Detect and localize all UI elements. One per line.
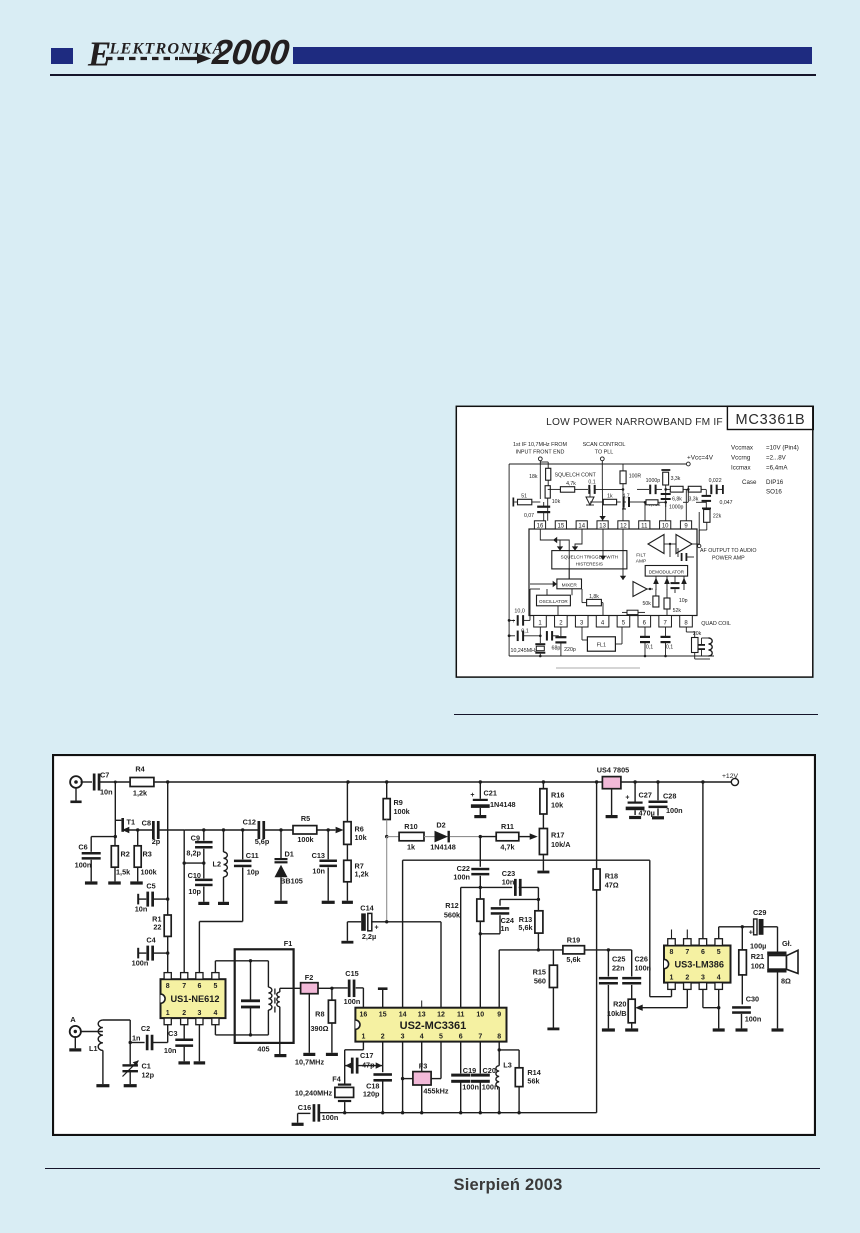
resistor R18 xyxy=(593,782,619,1113)
node C18 gnd rail xyxy=(381,1111,384,1114)
wire F3 bottom xyxy=(421,1085,423,1113)
capacitor C8 xyxy=(142,818,161,846)
svg-text:LEKTRONIKA: LEKTRONIKA xyxy=(109,40,225,58)
svg-text:C8: C8 xyxy=(142,818,151,827)
svg-text:4: 4 xyxy=(717,974,721,981)
svg-text:US1-NE612: US1-NE612 xyxy=(170,994,219,1004)
inset block mixer xyxy=(557,579,582,589)
svg-text:C1: C1 xyxy=(142,1061,151,1070)
svg-text:MIXER: MIXER xyxy=(562,583,578,589)
capacitor 10p xyxy=(671,576,688,604)
svg-text:1st IF 10,7MHz FROM: 1st IF 10,7MHz FROM xyxy=(513,442,567,448)
resistor 4,70k xyxy=(645,500,662,508)
wire mixer connections xyxy=(530,537,569,587)
svg-text:BB105: BB105 xyxy=(280,877,303,886)
svg-text:C6: C6 xyxy=(78,843,87,852)
node C1 C2 xyxy=(129,1041,132,1044)
svg-text:C9: C9 xyxy=(191,834,200,843)
svg-text:=2...8V: =2...8V xyxy=(766,455,787,462)
svg-text:5: 5 xyxy=(213,983,217,990)
resistor 6,8k xyxy=(666,486,689,502)
capacitor C28 xyxy=(649,782,683,816)
svg-text:C30: C30 xyxy=(746,994,759,1003)
connector A antenna xyxy=(70,1015,81,1048)
filter F1 box xyxy=(235,939,294,1043)
svg-text:R19: R19 xyxy=(567,935,580,944)
svg-text:C17: C17 xyxy=(360,1051,373,1060)
wire T1 to C8 xyxy=(124,829,154,831)
node C9 C10 xyxy=(202,861,205,864)
ground C1 xyxy=(124,1084,137,1087)
svg-text:C11: C11 xyxy=(246,851,259,860)
svg-text:C14: C14 xyxy=(360,904,374,913)
svg-text:5,6k: 5,6k xyxy=(518,923,533,932)
svg-text:10k: 10k xyxy=(355,833,368,842)
svg-text:100n: 100n xyxy=(132,959,149,968)
svg-text:8: 8 xyxy=(497,1033,501,1040)
svg-text:R9: R9 xyxy=(394,798,403,807)
inset label +Vcc=4V xyxy=(687,455,714,462)
capacitor 1000p mid xyxy=(661,493,684,511)
MC3361B datasheet inset figure xyxy=(455,400,814,678)
svg-text:12: 12 xyxy=(620,524,627,530)
svg-text:TO PLL: TO PLL xyxy=(595,450,613,456)
svg-text:F2: F2 xyxy=(305,973,314,982)
svg-text:10p: 10p xyxy=(247,867,260,876)
wire pin10 drop xyxy=(664,488,667,521)
svg-text:100k: 100k xyxy=(297,835,314,844)
node rail R6 xyxy=(346,780,349,783)
svg-text:7: 7 xyxy=(478,1033,482,1040)
footer rule xyxy=(45,1168,820,1170)
svg-text:C29: C29 xyxy=(753,908,766,917)
inset block squelch trigger xyxy=(552,551,627,569)
schematic frame xyxy=(53,755,815,1135)
svg-text:1N4148: 1N4148 xyxy=(490,800,516,809)
resistor 10k xyxy=(545,486,560,521)
svg-text:C28: C28 xyxy=(663,792,676,801)
svg-text:LOW POWER NARROWBAND FM IF: LOW POWER NARROWBAND FM IF xyxy=(546,417,723,428)
wire pin1 up xyxy=(530,589,540,620)
svg-text:14: 14 xyxy=(578,524,585,530)
svg-text:R21: R21 xyxy=(751,952,764,961)
capacitor C29 electrolytic xyxy=(742,908,777,950)
ground US3 pin4 xyxy=(713,1028,725,1031)
wire C12 to R5 xyxy=(264,829,293,831)
svg-text:C4: C4 xyxy=(146,936,156,945)
wire y863 pin7 to C10 xyxy=(184,862,204,864)
capacitor C22 xyxy=(453,837,489,888)
svg-text:+12V: +12V xyxy=(722,773,739,780)
wire pin12 to C14 xyxy=(387,922,441,1008)
capacitor C11 xyxy=(234,830,260,922)
wire pin9 up xyxy=(499,950,538,1008)
wire C11 to pin6 xyxy=(199,922,242,973)
capacitor C17 xyxy=(345,1051,383,1073)
svg-text:R5: R5 xyxy=(301,814,310,823)
svg-text:R11: R11 xyxy=(501,822,514,831)
wire R9 junction down xyxy=(386,837,388,922)
wire y830 C8 to C12 xyxy=(184,829,259,831)
node rail R16 xyxy=(542,780,545,783)
svg-text:47p: 47p xyxy=(362,1060,375,1069)
resistor 18k xyxy=(529,462,551,486)
inset title LOW POWER NARROWBAND FM IF xyxy=(546,417,723,428)
potentiometer R6 xyxy=(336,782,368,860)
capacitor C15 xyxy=(332,969,360,1006)
ground R8 xyxy=(326,1053,338,1056)
wire F3 left xyxy=(403,1078,413,1080)
ground C28 xyxy=(652,816,664,819)
arrow pin13 into demod xyxy=(600,529,606,560)
svg-text:47Ω: 47Ω xyxy=(605,880,619,889)
svg-text:=10V (Pin4): =10V (Pin4) xyxy=(766,444,799,451)
node L2 rail xyxy=(222,828,225,831)
capacitor C3 xyxy=(164,1025,193,1062)
svg-text:11: 11 xyxy=(457,1011,465,1018)
inset wire top rail xyxy=(509,461,686,478)
ground F2 xyxy=(303,1053,315,1056)
wire F3 right pin5 xyxy=(431,1042,441,1079)
svg-text:C26: C26 xyxy=(635,955,648,964)
svg-text:1: 1 xyxy=(166,1010,170,1017)
svg-text:US3-LM386: US3-LM386 xyxy=(674,960,724,970)
svg-text:1n: 1n xyxy=(132,1034,141,1043)
op-amp triangle left xyxy=(648,535,664,554)
capacitor C23 xyxy=(502,869,522,896)
wire pin16 drop xyxy=(539,470,541,499)
capacitor 68p xyxy=(546,631,560,651)
node pin5 R21 C29 xyxy=(741,925,744,928)
node C13 top xyxy=(327,828,330,831)
wire pin3 US2 xyxy=(402,1042,404,1113)
wire pin5 to F1 xyxy=(215,961,268,973)
svg-text:16: 16 xyxy=(537,524,544,530)
svg-text:8Ω: 8Ω xyxy=(781,977,791,986)
capacitor C7 xyxy=(93,770,113,796)
ground C13 xyxy=(322,901,335,904)
wire bottom rail xyxy=(319,1112,597,1114)
crystal F4 xyxy=(332,1066,353,1113)
wire US3 pin6 Vcc xyxy=(702,782,704,939)
svg-text:18k: 18k xyxy=(529,474,538,480)
svg-text:R15: R15 xyxy=(533,967,546,976)
svg-text:FILT: FILT xyxy=(636,553,646,559)
capacitor 1000p top xyxy=(637,478,662,494)
wire pin12 demod xyxy=(620,529,626,580)
svg-text:56k: 56k xyxy=(527,1077,540,1086)
svg-text:QUAD COIL: QUAD COIL xyxy=(701,621,731,627)
svg-text:10n: 10n xyxy=(502,878,515,887)
resistor R3 xyxy=(134,830,157,881)
node rail US3pin6 xyxy=(701,780,704,783)
resistor R2 xyxy=(111,837,131,882)
svg-text:R14: R14 xyxy=(527,1068,541,1077)
diode D2 xyxy=(424,821,480,852)
resistor R4 xyxy=(130,764,154,797)
capacitor C27 electrolytic xyxy=(625,782,654,818)
resistor 3,3k mid xyxy=(688,486,706,502)
inset label 1st IF input xyxy=(513,442,567,456)
capacitor C13 xyxy=(312,830,337,901)
diode squelch xyxy=(586,489,594,505)
svg-text:6: 6 xyxy=(701,949,705,956)
svg-text:7: 7 xyxy=(182,983,186,990)
resistor 51 xyxy=(513,494,541,507)
node R13 top xyxy=(537,898,540,901)
svg-text:1,5k: 1,5k xyxy=(116,868,131,877)
inset wire bottom rail xyxy=(509,655,714,657)
svg-text:8: 8 xyxy=(670,949,674,956)
inset label filt amp xyxy=(636,553,646,565)
node F1 cap bottom xyxy=(249,1033,252,1036)
crystal 10,245MHz xyxy=(535,627,545,657)
capacitor C4 xyxy=(132,936,168,968)
svg-text:1000p: 1000p xyxy=(669,505,684,511)
node C19 gnd rail xyxy=(459,1111,462,1114)
wire pin1 US2 xyxy=(345,1042,364,1066)
svg-text:100n: 100n xyxy=(666,806,683,815)
capacitor C18 xyxy=(363,1073,392,1113)
svg-text:C27: C27 xyxy=(639,791,652,800)
filter F2 xyxy=(301,973,318,994)
svg-text:5: 5 xyxy=(717,949,721,956)
svg-text:6,8k: 6,8k xyxy=(672,497,682,503)
capacitor C9 xyxy=(186,828,212,863)
svg-text:OSCILLATOR: OSCILLATOR xyxy=(539,599,568,604)
header logo Elektronika 2000 xyxy=(51,48,73,64)
inset border frame xyxy=(456,406,813,677)
svg-text:L3: L3 xyxy=(503,1060,512,1069)
ground D1 xyxy=(275,901,288,904)
inductor L1 xyxy=(89,1020,103,1084)
svg-text:10: 10 xyxy=(476,1011,484,1018)
svg-text:3: 3 xyxy=(401,1033,405,1040)
wire C23 to R13 xyxy=(519,887,539,899)
svg-text:2p: 2p xyxy=(152,837,161,846)
wire US3 pin5 out xyxy=(719,927,743,939)
svg-text:100n: 100n xyxy=(75,861,92,870)
op-amp triangle right xyxy=(676,535,692,554)
wire speaker gnd xyxy=(777,973,779,1029)
ground C6 xyxy=(85,881,98,884)
wire pin11 drop xyxy=(644,501,647,521)
wire F3 top pin4 xyxy=(421,1042,423,1072)
svg-text:+: + xyxy=(749,928,754,937)
label quad coil xyxy=(701,621,731,627)
node R9 R10 xyxy=(385,835,388,838)
inset wire left rail xyxy=(508,464,510,656)
capacitor C2 xyxy=(130,1024,153,1050)
svg-text:1000p: 1000p xyxy=(646,478,661,484)
resistor 22k xyxy=(699,510,721,531)
ground C25 xyxy=(602,1028,615,1031)
transformer F1 core xyxy=(274,989,276,1013)
node C14 junction xyxy=(385,920,388,923)
svg-text:1n: 1n xyxy=(501,924,510,933)
inset terminal IF input xyxy=(538,457,542,461)
inset bottom arrows xyxy=(556,667,640,669)
node C11 top xyxy=(241,828,244,831)
stub R17 xyxy=(537,871,549,874)
svg-text:560k: 560k xyxy=(444,910,461,919)
inductor L3 xyxy=(496,1042,512,1113)
svg-text:F1: F1 xyxy=(284,939,293,948)
wire pin16 to C15 xyxy=(356,988,364,1008)
svg-text:100n: 100n xyxy=(745,1015,762,1024)
svg-text:0,047: 0,047 xyxy=(720,500,733,506)
trimmer C1 xyxy=(122,1043,154,1085)
svg-text:10,245MHz: 10,245MHz xyxy=(511,648,538,654)
resistor R1 xyxy=(152,915,171,937)
svg-text:0,07: 0,07 xyxy=(524,513,534,519)
op-amp US1-NE612 xyxy=(161,973,226,1025)
svg-text:C5: C5 xyxy=(146,882,155,891)
label 10,240MHz xyxy=(295,1088,333,1097)
node rail R9 xyxy=(385,780,388,783)
svg-text:R10: R10 xyxy=(404,822,417,831)
svg-text:R17: R17 xyxy=(551,830,564,839)
transistor T1 xyxy=(115,818,135,834)
svg-text:C16: C16 xyxy=(298,1103,311,1112)
svg-text:POWER AMP: POWER AMP xyxy=(712,556,745,562)
svg-text:L1: L1 xyxy=(89,1044,98,1053)
node F4 gnd rail xyxy=(343,1111,346,1114)
svg-text:R4: R4 xyxy=(135,764,145,773)
svg-text:+: + xyxy=(375,925,379,932)
filter FL1 xyxy=(582,627,622,651)
wire US3 pin3 xyxy=(703,989,719,1007)
svg-text:10,240MHz: 10,240MHz xyxy=(295,1088,333,1097)
node F3 gnd rail xyxy=(420,1111,423,1114)
svg-text:R12: R12 xyxy=(445,901,458,910)
quad coil tank xyxy=(695,638,713,659)
node C4 pin8 xyxy=(166,951,169,954)
capacitor C20 xyxy=(471,1042,499,1113)
svg-text:10Ω: 10Ω xyxy=(751,961,765,970)
svg-text:2: 2 xyxy=(381,1033,385,1040)
resistor 50k xyxy=(643,589,659,607)
inductor L2 xyxy=(212,830,227,902)
wire F2 out xyxy=(318,987,332,989)
svg-text:SCAN CONTROL: SCAN CONTROL xyxy=(583,442,626,448)
main schematic FM receiver xyxy=(52,754,816,1136)
ground R2 xyxy=(108,881,121,884)
svg-text:405: 405 xyxy=(257,1044,269,1053)
ground speaker xyxy=(772,1028,784,1031)
ground L2 xyxy=(218,902,229,905)
svg-text:10k: 10k xyxy=(552,499,561,505)
svg-text:DEMODULATOR: DEMODULATOR xyxy=(649,569,685,574)
svg-text:2,2µ: 2,2µ xyxy=(362,932,376,941)
resistor 100R xyxy=(620,464,641,489)
resistor 1,8k xyxy=(582,589,603,616)
svg-text:R3: R3 xyxy=(143,850,152,859)
svg-text:2: 2 xyxy=(182,1010,186,1017)
op-amp triangle small xyxy=(633,582,647,597)
wire mid row xyxy=(590,489,706,507)
svg-text:Vccmax: Vccmax xyxy=(731,444,754,451)
op-amp US3-LM386 xyxy=(664,939,731,990)
svg-text:13: 13 xyxy=(418,1011,426,1018)
svg-text:R20: R20 xyxy=(613,1000,626,1009)
svg-text:C12: C12 xyxy=(243,817,256,826)
svg-text:C19: C19 xyxy=(463,1066,476,1075)
wire Vcc rail xyxy=(81,781,732,783)
svg-text:1k: 1k xyxy=(407,842,416,851)
node rail R4 xyxy=(166,780,169,783)
svg-text:D2: D2 xyxy=(436,821,445,830)
capacitor 0,1 pin6 xyxy=(640,627,653,657)
svg-text:C21: C21 xyxy=(484,789,497,798)
svg-text:T1: T1 xyxy=(127,818,136,827)
svg-text:F4: F4 xyxy=(332,1074,341,1083)
svg-text:R8: R8 xyxy=(315,1010,324,1019)
svg-text:Gł.: Gł. xyxy=(782,939,792,948)
svg-text:C15: C15 xyxy=(345,969,358,978)
label 10,7MHz xyxy=(295,1057,325,1066)
svg-text:13: 13 xyxy=(599,524,606,530)
svg-text:68p: 68p xyxy=(552,646,561,652)
capacitor C14 electrolytic xyxy=(347,904,386,941)
svg-text:SQUELCH CONT: SQUELCH CONT xyxy=(555,472,597,478)
resistor R16 xyxy=(540,782,564,829)
wire pin12 drop xyxy=(622,488,625,521)
svg-text:1,2k: 1,2k xyxy=(133,789,148,798)
node T1 R3 xyxy=(136,828,139,831)
arrow into squelch from pin14 xyxy=(572,529,582,551)
node C6 R2 xyxy=(114,835,117,838)
inset block demodulator xyxy=(645,566,687,577)
node F1 cap top xyxy=(249,959,252,962)
wire R5 to R6 xyxy=(317,829,336,831)
svg-text:FL1: FL1 xyxy=(597,643,606,649)
svg-text:E: E xyxy=(87,34,111,73)
inset terminal scan control xyxy=(600,457,604,461)
svg-text:10n: 10n xyxy=(135,905,148,914)
capacitor 0,047 xyxy=(702,489,733,509)
inset terminal Vcc xyxy=(686,462,690,466)
wire L1 top xyxy=(103,1020,130,1043)
svg-text:L2: L2 xyxy=(212,860,221,869)
wire node to C23 xyxy=(480,886,512,888)
resistor R11 xyxy=(480,822,534,851)
node R12 bottom xyxy=(479,932,482,935)
svg-text:14: 14 xyxy=(399,1011,407,1018)
svg-text:1: 1 xyxy=(670,974,674,981)
node R14 gnd rail xyxy=(517,1111,520,1114)
op-amp U1 IC body MC3361 xyxy=(529,529,697,616)
filter F3 xyxy=(413,1062,431,1085)
svg-text:3,3k: 3,3k xyxy=(688,497,698,503)
wire A to L1 tap xyxy=(81,1031,103,1033)
separator rule between inset and schematic xyxy=(454,714,818,716)
stub pin15 xyxy=(378,987,388,1007)
ground L1 xyxy=(96,1084,109,1087)
inset spec text xyxy=(731,444,799,495)
svg-text:4,7k: 4,7k xyxy=(500,842,515,851)
svg-text:8,2p: 8,2p xyxy=(186,848,201,857)
svg-text:220p: 220p xyxy=(564,647,576,653)
svg-text:10n: 10n xyxy=(312,866,325,875)
node R13 bottom xyxy=(537,948,540,951)
svg-text:+: + xyxy=(625,794,629,801)
terminal AF output xyxy=(698,530,757,562)
regulator US4 7805 xyxy=(597,766,629,816)
svg-text:100R: 100R xyxy=(629,474,642,480)
node F2 R8 xyxy=(330,987,333,990)
node C25 top xyxy=(607,948,610,951)
